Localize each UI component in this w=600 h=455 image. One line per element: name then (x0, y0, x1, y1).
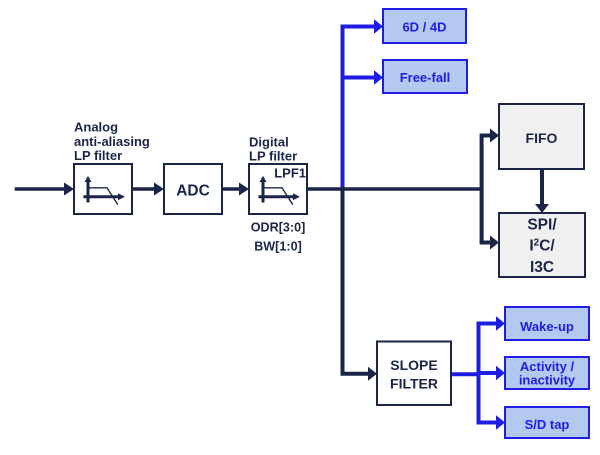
svg-text:BW[1:0]: BW[1:0] (254, 240, 302, 254)
svg-text:SLOPE: SLOPE (390, 357, 437, 373)
svg-text:I2C/: I2C/ (529, 238, 555, 255)
svg-text:LP filter: LP filter (74, 148, 122, 163)
svg-text:Wake-up: Wake-up (520, 319, 574, 334)
svg-text:FIFO: FIFO (526, 130, 558, 146)
svg-text:I3C: I3C (530, 259, 554, 276)
svg-text:LP filter: LP filter (249, 148, 297, 163)
svg-text:inactivity: inactivity (519, 373, 576, 388)
svg-text:Free-fall: Free-fall (400, 70, 451, 85)
svg-text:anti-aliasing: anti-aliasing (74, 134, 150, 149)
svg-text:SPI/: SPI/ (527, 216, 557, 233)
svg-text:6D / 4D: 6D / 4D (402, 20, 446, 35)
svg-text:ADC: ADC (176, 182, 210, 199)
svg-text:FILTER: FILTER (390, 375, 438, 391)
svg-text:Digital: Digital (249, 134, 289, 149)
svg-text:Analog: Analog (74, 120, 118, 135)
svg-text:S/D tap: S/D tap (525, 417, 570, 432)
svg-text:LPF1: LPF1 (274, 165, 306, 180)
svg-text:ODR[3:0]: ODR[3:0] (251, 220, 306, 234)
